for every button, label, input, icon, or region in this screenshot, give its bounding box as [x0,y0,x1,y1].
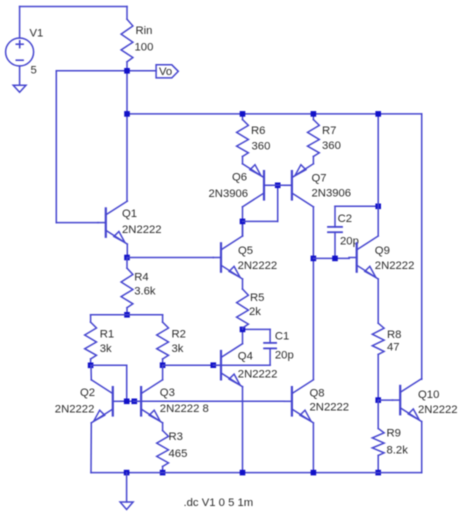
svg-text:R6: R6 [251,125,265,137]
svg-text:V1: V1 [30,28,44,40]
ground (V1) [13,85,26,92]
label R5 [250,292,264,304]
svg-text:2N2222: 2N2222 [418,404,458,416]
resistor R5 [237,289,249,329]
junction Q9 base tap [311,256,317,262]
wire top [20,6,127,8]
svg-text:Q5: Q5 [238,245,253,257]
svg-text:2N2222: 2N2222 [238,369,278,381]
junction Q4e [240,470,246,476]
svg-text:Q7: Q7 [312,173,327,185]
svg-text:2N2222: 2N2222 [55,403,95,415]
value 2N2222 (Q5) [238,260,278,272]
value 47 [387,342,400,354]
net flag Vo [156,65,178,78]
label R6 [251,125,265,137]
transistor Q9 [349,236,378,279]
svg-text:2k: 2k [249,306,261,318]
wire Q10 collector [421,114,423,379]
wire C2 top [335,205,378,207]
wire Q6 collector [242,207,244,236]
junction Q4 base [211,362,217,368]
svg-text:Vo: Vo [159,66,172,78]
svg-text:360: 360 [252,141,271,153]
svg-text:20p: 20p [275,350,294,362]
transistor Q4 [213,344,242,387]
value 3.6k [134,286,156,298]
label R8 [387,329,401,341]
resistor R8 [372,323,384,354]
transistor Q7 [284,164,313,207]
svg-text:Q3: Q3 [160,387,175,399]
resistor R7 [308,114,320,164]
svg-text:R4: R4 [134,272,148,284]
label Q6 [232,172,247,184]
label Q10 [418,389,439,401]
value 8.2k [387,444,409,456]
svg-text:2N2222: 2N2222 [238,260,278,272]
svg-text:C1: C1 [275,330,289,342]
wire Q2 emitter [90,423,92,473]
wire Q3 collector [162,365,164,380]
wire Q6Q7 base [264,184,292,186]
svg-text:Q8: Q8 [310,388,325,400]
junction base bus B [132,399,138,405]
wire gnd stub [126,473,128,502]
transistor Q2 [91,380,120,423]
label Q5 [238,245,253,257]
wire C2 branch [377,114,379,236]
wire supply rail [127,113,422,115]
value 2N2222 (Q1) [122,224,162,236]
label V1 [30,28,44,40]
resistor R4 [121,258,133,315]
value 3k (R1) [100,343,112,355]
svg-text:2N2222: 2N2222 [310,402,350,414]
junction rail C2 branch [375,111,381,117]
wire Q2 collector [90,365,92,380]
node Q1e [124,255,130,261]
value 3k (R2) [172,343,184,355]
svg-text:Q4: Q4 [238,351,253,363]
wire Q3 emitter [162,423,164,431]
wire C1 bottom [163,348,271,365]
junction R6 top [240,111,246,117]
transistor Q1 [98,201,127,244]
capacitor C1 [243,329,277,348]
label Q8 [310,388,325,400]
value 2N2222 (Q8) [310,402,350,414]
node Vo [124,68,130,74]
wire base bus [121,400,285,402]
junction mirror [240,219,246,225]
svg-text:2N2222: 2N2222 [122,224,162,236]
label Rin [136,25,153,37]
label Q9 [375,245,390,257]
svg-text:3.6k: 3.6k [134,286,156,298]
label Q7 [312,173,327,185]
wire Q7-Q8 column [312,207,314,380]
directive .dc [184,497,254,509]
value 2k [249,306,261,318]
label R9 [387,428,401,440]
capacitor C2 [328,206,342,258]
svg-text:465: 465 [169,448,188,460]
label Q3 [160,387,175,399]
wire Q4 emitter [242,387,244,473]
wire Q5 collector [242,221,244,236]
value 360 (R6) [252,141,271,153]
junction base bus A [124,399,130,405]
junction rail-left [124,111,130,117]
junction C2 top [375,204,381,210]
label R1 [100,329,114,341]
junction C2 bottom [332,256,338,262]
transistor Q5 [213,236,242,279]
wire Q10 base [378,399,392,401]
wire mirror tie [243,185,278,221]
svg-text:2N3906: 2N3906 [312,188,352,200]
value 465 [169,448,188,460]
junction Q10 base node [375,397,381,403]
wire to Vo flag [127,70,156,72]
junction R9 bottom [375,470,381,476]
junction R2 bottom [160,362,166,368]
wire Vo down to Q1 [126,71,128,201]
value 2N2222 (Q2) [55,403,95,415]
wire R8 bottom [377,355,379,401]
svg-text:100: 100 [135,42,154,54]
value 360 (R7) [322,140,341,152]
svg-text:R3: R3 [169,431,183,443]
value 2N3906 (Q6) [209,188,249,200]
junction R3 bottom [160,470,166,476]
svg-text:3k: 3k [100,343,112,355]
resistor R1 [85,322,97,365]
wire feedback [56,71,127,223]
svg-text:2N2222: 2N2222 [375,260,415,272]
transistor Q3 [133,380,162,423]
label R3 [169,431,183,443]
value 2N2222 (Q4) [238,369,278,381]
wire Q5 base [127,257,213,259]
wire Q4 collector [242,329,244,343]
transistor Q6 [243,164,272,207]
resistor R3 [157,431,169,473]
wire Q8 emitter [312,423,314,473]
svg-text:360: 360 [322,140,341,152]
junction Q6Q7 base [275,183,281,189]
value 20p (C1) [275,350,294,362]
wire Q9 base [313,257,349,259]
svg-text:8.2k: 8.2k [387,444,409,456]
svg-text:Q2: Q2 [80,387,95,399]
svg-text:.dc V1 0 5 1m: .dc V1 0 5 1m [184,497,254,509]
label Q4 [238,351,253,363]
wire Q9 emitter [377,279,379,323]
value 5 [31,65,37,77]
wire R1R2 tie [91,315,163,322]
label C2 [338,213,352,225]
value 2N2222 8 [160,403,209,415]
wire base drop [91,365,127,401]
svg-text:47: 47 [387,342,400,354]
label Q2 [80,387,95,399]
svg-text:R7: R7 [322,125,336,137]
ground (rail) [120,502,133,510]
resistor R6 [237,114,249,164]
junction R4 bottom [124,312,130,318]
junction Q8e [311,470,317,476]
label R4 [134,272,148,284]
value 100 [135,42,154,54]
voltage source V1 [6,7,34,86]
value 2N3906 (Q7) [312,188,352,200]
wire Q5 emitter [242,279,244,289]
svg-text:R2: R2 [172,329,186,341]
svg-text:C2: C2 [338,213,352,225]
resistor R9 [372,400,384,473]
label R7 [322,125,336,137]
svg-text:R8: R8 [387,329,401,341]
junction R1 bottom [88,363,94,369]
resistor Rin [121,7,133,71]
label R2 [172,329,186,341]
junction gnd tap [124,470,130,476]
svg-text:Q1: Q1 [122,208,137,220]
label C1 [275,330,289,342]
svg-text:Q9: Q9 [375,245,390,257]
svg-text:R1: R1 [100,329,114,341]
transistor Q10 [393,379,422,422]
label Q1 [122,208,137,220]
wire Q10 emitter [421,422,423,473]
junction R5 bottom [240,327,246,333]
resistor R2 [157,322,169,365]
svg-text:R5: R5 [250,292,264,304]
transistor Q8 [284,380,313,423]
svg-text:2N2222 8: 2N2222 8 [160,403,209,415]
svg-text:Rin: Rin [136,25,153,37]
value 2N2222 (Q10) [418,404,458,416]
wire ground rail [91,472,422,474]
svg-text:3k: 3k [172,343,184,355]
svg-text:Q6: Q6 [232,172,247,184]
value 20p (C2) [340,236,359,248]
svg-text:R9: R9 [387,428,401,440]
value 2N2222 (Q9) [375,260,415,272]
wire Q1 emitter [126,244,128,257]
junction R7 top [311,111,317,117]
svg-text:5: 5 [31,65,37,77]
svg-text:2N3906: 2N3906 [209,188,249,200]
svg-text:Q10: Q10 [418,389,439,401]
